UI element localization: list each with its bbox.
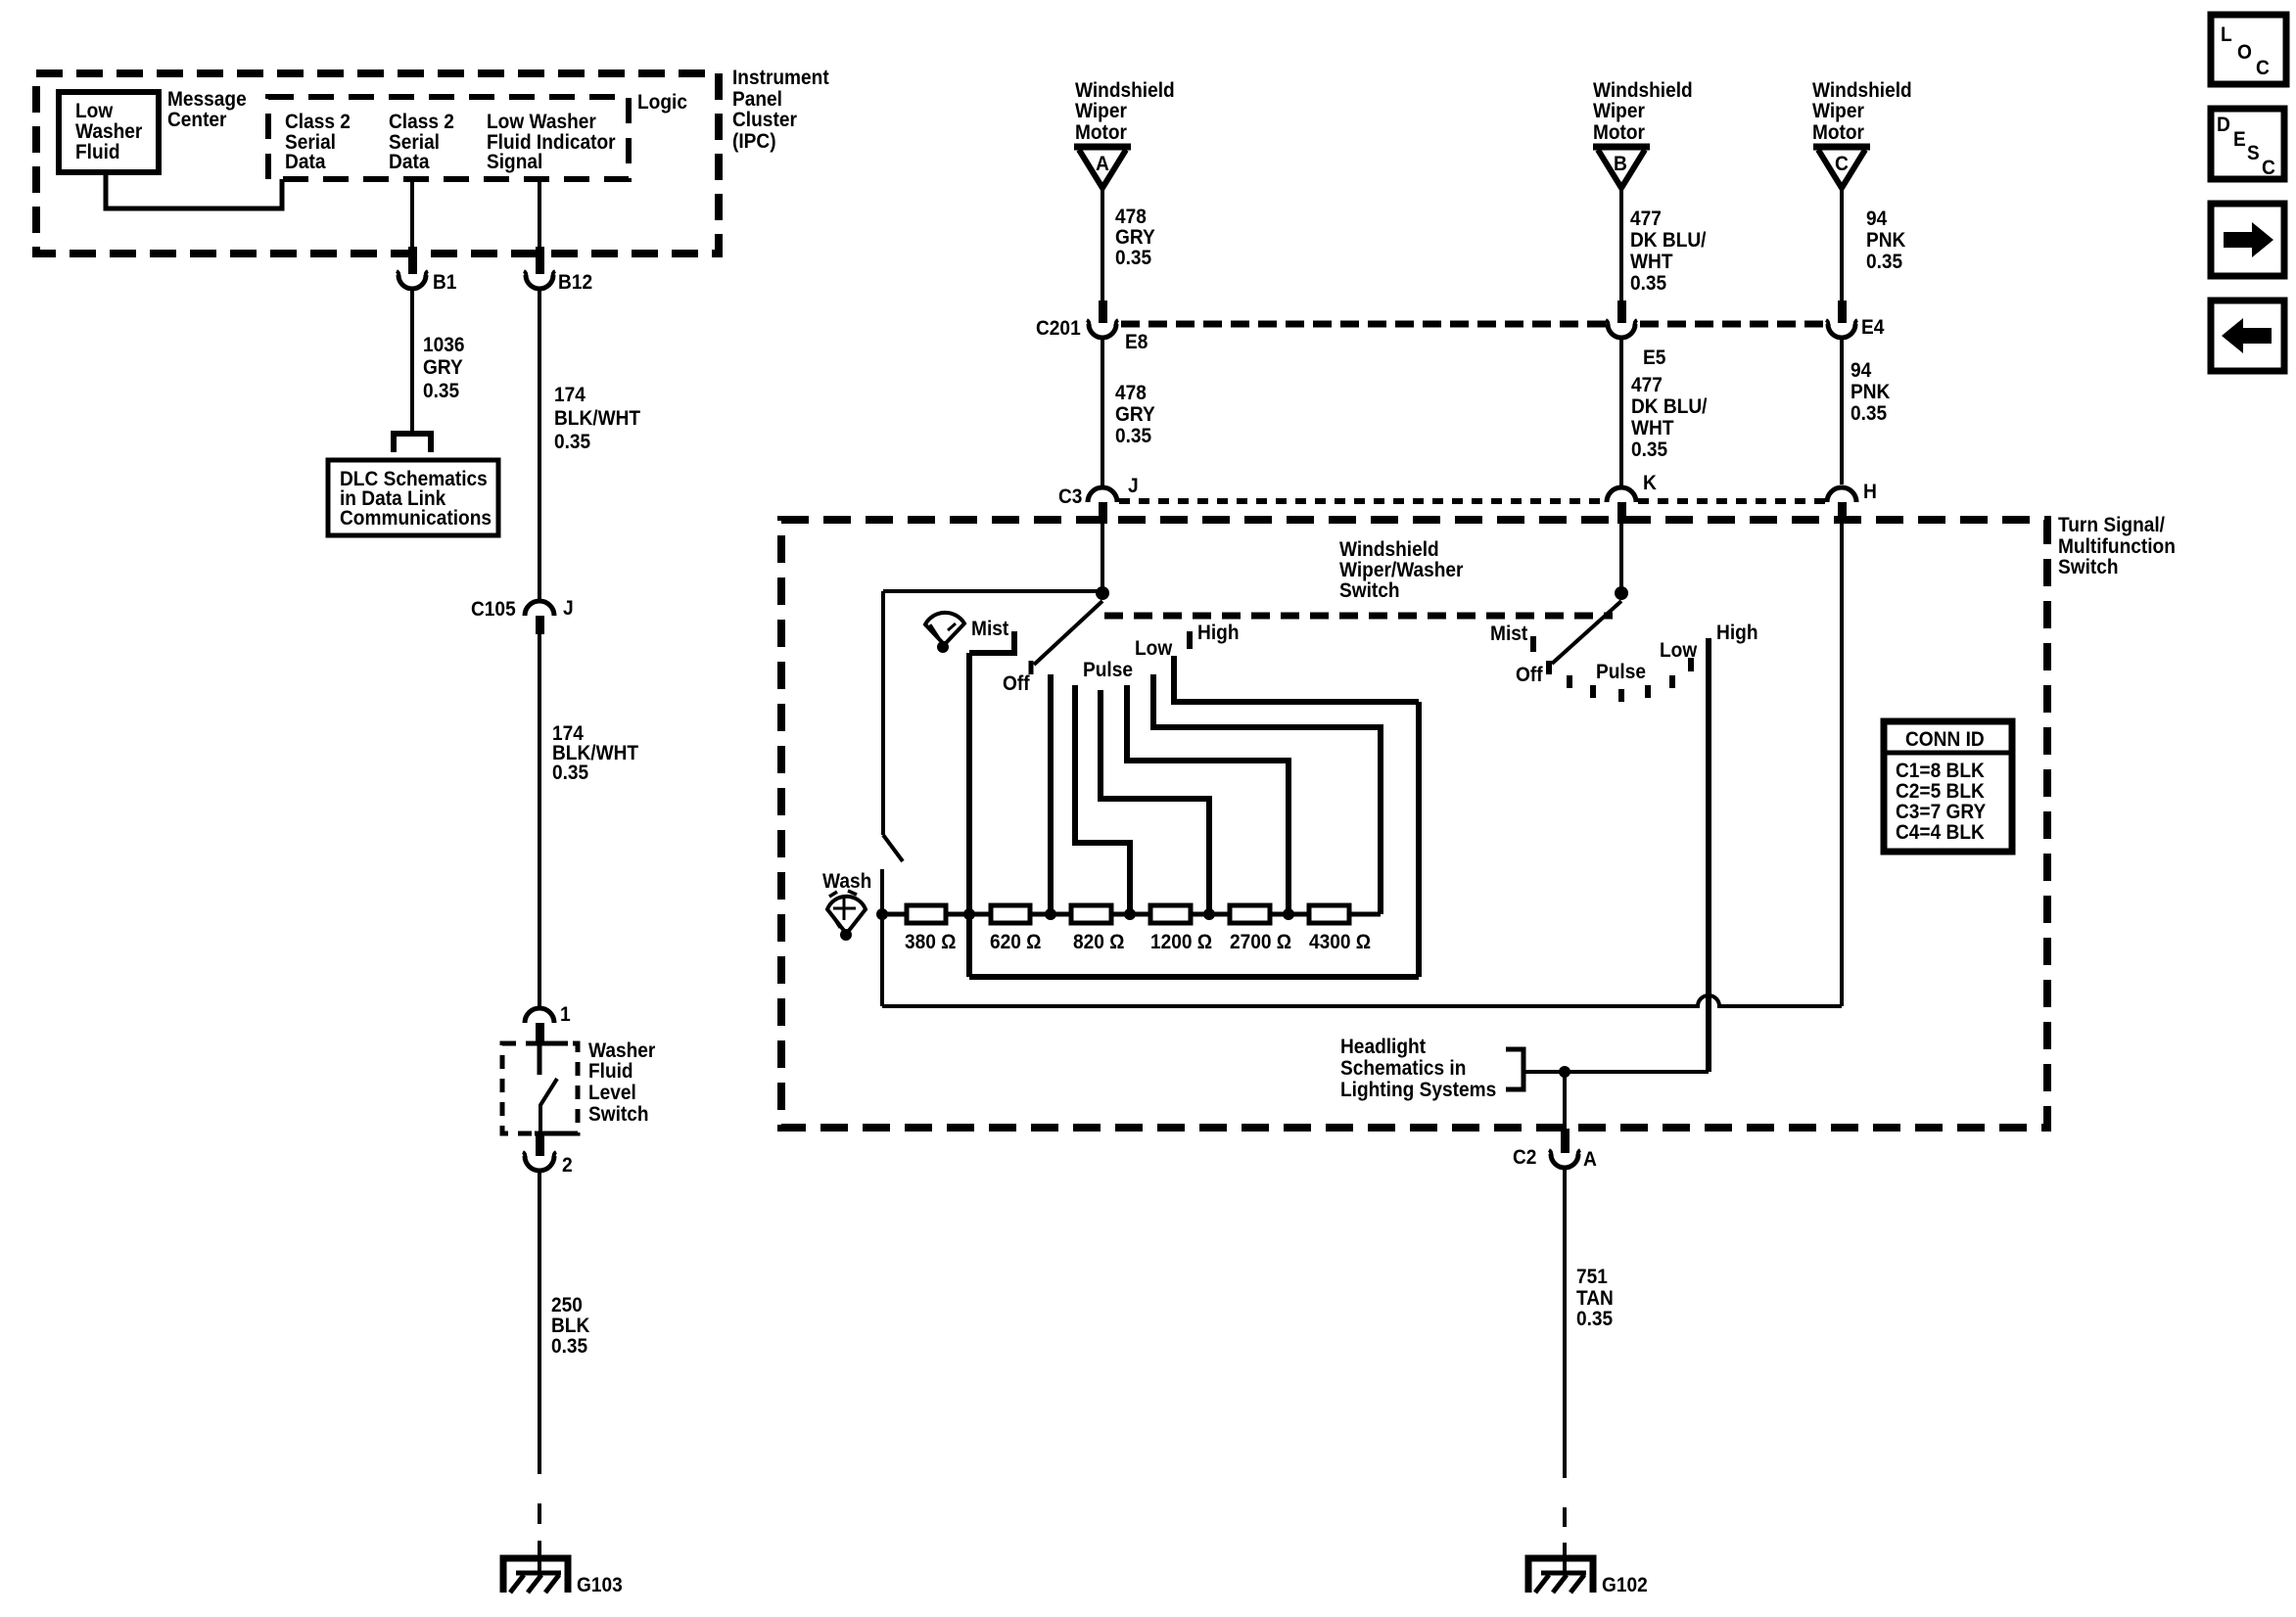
svg-text:Panel: Panel [732,88,782,111]
svg-text:0.35: 0.35 [551,1335,587,1358]
Turn Signal/Multifunction Switch label [2058,514,2176,578]
svg-text:J: J [563,597,574,620]
connector C3 cavity H [1827,487,1856,524]
svg-text:Motor: Motor [1812,121,1864,144]
resistor chain bus segments [882,912,1381,917]
resistor 380 ohm [907,905,946,923]
svg-text:C: C [2262,157,2275,179]
svg-text:0.35: 0.35 [552,762,588,784]
right switch Off tick [1546,661,1552,674]
svg-text:478: 478 [1115,382,1147,404]
wire label 477 DK BLU/WHT 0.35 upper [1630,208,1707,295]
svg-text:2700 Ω: 2700 Ω [1230,931,1291,953]
nav icon forward arrow button [2211,204,2284,276]
svg-text:C105: C105 [471,598,516,621]
svg-text:1036: 1036 [423,334,465,356]
svg-text:Off: Off [1516,664,1544,686]
svg-text:Logic: Logic [637,91,687,114]
wire 250 BLK [538,1171,541,1474]
svg-text:Pulse: Pulse [1596,661,1646,683]
Washer Fluid Level Switch label [588,1039,655,1126]
connector 1 washer fluid level switch [525,1008,554,1043]
svg-text:Wash: Wash [822,870,871,893]
svg-text:B12: B12 [558,271,592,294]
svg-text:Low: Low [75,100,114,122]
svg-text:O: O [2237,41,2252,64]
svg-text:C3=7 GRY: C3=7 GRY [1896,801,1986,823]
svg-text:K: K [1643,472,1657,494]
svg-text:C2=5 BLK: C2=5 BLK [1896,780,1985,803]
left switch blade [1034,601,1102,665]
windshield wiper motor B triangle [1593,147,1650,188]
DLC Schematics box [328,460,498,535]
junction node off/chain [1045,908,1056,920]
Windshield Wiper Motor A label [1075,79,1175,144]
svg-text:C2: C2 [1513,1146,1536,1169]
wire A into switch [1101,524,1104,595]
right switch Mist tick [1530,636,1536,652]
connector C201 cavity E5 [1606,300,1637,338]
junction node pulse3/chain [1283,908,1294,920]
Low Washer Fluid box [59,92,159,172]
wire 94 PNK mid segment [1840,338,1844,485]
pulse delay wire 3 [1127,685,1289,914]
svg-text:E: E [2233,128,2246,151]
connector B12 [524,247,555,289]
svg-text:174: 174 [554,384,586,406]
right switch High contact wire down [1706,638,1711,1072]
svg-text:0.35: 0.35 [1115,247,1151,269]
svg-text:Data: Data [285,151,326,173]
svg-text:Fluid: Fluid [588,1060,633,1083]
svg-text:DK BLU/: DK BLU/ [1630,229,1707,252]
svg-text:TAN: TAN [1576,1287,1614,1310]
svg-text:751: 751 [1576,1266,1608,1288]
wire dash to ground G103 [538,1503,541,1524]
right switch Low tick [1688,658,1694,671]
svg-text:GRY: GRY [1115,226,1155,249]
ground G103 [503,1558,568,1593]
svg-text:(IPC): (IPC) [732,130,776,153]
svg-text:Multifunction: Multifunction [2058,535,2176,558]
wash branch lower vertical [880,869,884,1006]
svg-text:477: 477 [1631,374,1663,396]
svg-text:380 Ω: 380 Ω [905,931,957,953]
svg-text:1: 1 [560,1003,571,1026]
connector C3 cavity J [1088,487,1117,524]
svg-text:Communications: Communications [340,507,492,530]
junction node at C2 drop [1559,1066,1570,1078]
svg-text:H: H [1863,481,1877,503]
svg-text:B1: B1 [433,271,457,294]
svg-text:C: C [1835,153,1849,175]
svg-text:E5: E5 [1643,346,1666,369]
wire 478 GRY mid segment [1101,338,1104,486]
svg-text:D: D [2217,114,2230,136]
resistor 1200 ohm [1150,905,1191,923]
svg-text:Windshield: Windshield [1075,79,1175,102]
svg-text:Signal: Signal [487,151,542,173]
svg-text:Turn Signal/: Turn Signal/ [2058,514,2165,536]
Class 2 Serial Data label 2 [389,111,454,173]
high wire horizontal to C2 junction [1525,1070,1709,1074]
svg-text:Schematics in: Schematics in [1340,1057,1466,1080]
wire label 94 PNK 0.35 upper [1866,208,1905,273]
svg-text:820 Ω: 820 Ω [1073,931,1125,953]
junction node mist rail/chain [963,908,975,920]
svg-text:High: High [1716,622,1758,644]
svg-text:A: A [1583,1148,1597,1171]
svg-text:Fluid: Fluid [75,141,120,163]
svg-text:Mist: Mist [1490,623,1527,645]
svg-text:94: 94 [1851,359,1871,382]
svg-text:Wiper/Washer: Wiper/Washer [1339,559,1464,581]
svg-text:Windshield: Windshield [1339,538,1439,561]
svg-text:C4=4 BLK: C4=4 BLK [1896,821,1985,844]
wash branch upper vertical [881,591,885,835]
svg-text:Center: Center [167,109,227,131]
rail right vertical to Low/High feed [1416,702,1422,977]
svg-text:Class 2: Class 2 [389,111,454,133]
nav icon back arrow button [2211,300,2284,371]
connector B1 [397,247,428,289]
wire dash to ground G102 [1563,1507,1567,1527]
svg-text:G103: G103 [577,1574,623,1596]
svg-text:1200 Ω: 1200 Ω [1150,931,1212,953]
wire B into switch [1619,524,1623,595]
right switch pulse arc ticks [1570,675,1672,702]
wire 478 GRY from motor A [1101,188,1104,301]
mist rail left vertical [966,653,972,977]
washer fluid switch top contact [537,1043,568,1075]
svg-text:Motor: Motor [1593,121,1645,144]
svg-text:Wiper: Wiper [1593,100,1645,122]
Logic inner dashed box [268,97,629,179]
svg-text:94: 94 [1866,208,1887,230]
wire label 478 GRY 0.35 lower [1115,382,1155,447]
wire into ground G102 [1563,1543,1567,1571]
washer fluid switch blade [540,1079,557,1133]
wire 477 DK BLU/WHT mid segment [1619,338,1623,486]
svg-text:Message: Message [167,88,247,111]
wire down from junction to C2 [1563,1072,1567,1130]
svg-text:0.35: 0.35 [1115,425,1151,447]
IPC label [732,67,829,153]
junction node on wire B [1615,586,1628,600]
pulse delay wire 1 [1075,685,1130,914]
svg-text:Switch: Switch [1339,579,1400,602]
wiper/washer switch inner dashed line [1104,613,1613,620]
resistor 820 ohm [1071,905,1111,923]
washer fluid level switch dashed box [502,1043,578,1133]
washer fluid switch bottom contact [535,1132,565,1136]
Class 2 Serial Data label 1 [285,111,351,173]
windshield wiper motor C triangle [1813,147,1870,188]
svg-text:Wiper: Wiper [1075,100,1127,122]
wire 94 PNK riser from wash line to connector H [1840,524,1844,1006]
svg-text:GRY: GRY [423,356,463,379]
wire label 1036 GRY 0.35 [423,334,465,402]
resistor 2700 ohm [1230,905,1270,923]
wire label 478 GRY 0.35 upper [1115,206,1155,269]
svg-text:4300 Ω: 4300 Ω [1309,931,1371,953]
connector 2 washer fluid level switch [523,1134,556,1171]
svg-text:0.35: 0.35 [1631,439,1667,461]
connector C2 cavity A [1549,1129,1580,1168]
svg-text:WHT: WHT [1630,251,1673,273]
wire label 94 PNK 0.35 lower [1851,359,1890,425]
svg-text:A: A [1096,153,1109,175]
wash output line along bottom with crossover hump [882,995,1842,1006]
svg-text:Wiper: Wiper [1812,100,1864,122]
wire label 174 BLK/WHT 0.35 lower [552,722,638,784]
svg-text:J: J [1128,475,1139,497]
wire Class 2 Serial Data down to B1 [410,179,414,248]
Message Center label [167,88,247,131]
svg-text:Off: Off [1003,672,1031,695]
Headlight Schematics in Lighting Systems label [1340,1036,1496,1101]
resistor 620 ohm [991,905,1030,923]
resistor value labels [905,931,1371,953]
off-page fork symbol above DLC box [394,434,431,452]
svg-text:S: S [2247,142,2260,164]
junction node pulse1/chain [1124,908,1136,920]
wire label 751 TAN 0.35 [1576,1266,1614,1330]
wire 174 BLK/WHT lower segment [538,634,541,1006]
wash position icon (wiper symbol with spray) [827,891,866,941]
svg-text:Switch: Switch [2058,556,2119,578]
svg-text:E4: E4 [1861,316,1885,339]
resistor 4300 ohm [1309,905,1349,923]
svg-text:2: 2 [562,1154,573,1177]
svg-text:Headlight: Headlight [1340,1036,1426,1058]
svg-text:Class 2: Class 2 [285,111,351,133]
svg-text:0.35: 0.35 [1866,251,1902,273]
svg-text:Pulse: Pulse [1083,659,1133,681]
CONN ID table box [1884,721,2012,852]
pulse delay wire 4 to chain end [1153,674,1381,914]
svg-text:DK BLU/: DK BLU/ [1631,395,1708,418]
windshield wiper motor A triangle [1074,147,1131,188]
svg-text:L: L [2221,23,2232,46]
svg-text:Cluster: Cluster [732,109,797,131]
Off contact wire [1048,674,1054,914]
svg-text:WHT: WHT [1631,417,1674,439]
svg-text:Instrument: Instrument [732,67,829,89]
svg-text:Low Washer: Low Washer [487,111,596,133]
svg-text:478: 478 [1115,206,1147,228]
Windshield Wiper Motor B label [1593,79,1693,144]
junction node wash/chain [876,908,888,920]
C201 connector row dashed line E8 to E5 [1121,321,1606,328]
svg-text:C3: C3 [1058,485,1082,508]
svg-text:Washer: Washer [588,1039,655,1062]
svg-text:C201: C201 [1036,317,1081,340]
svg-text:Motor: Motor [1075,121,1127,144]
nav icon LOC button [2211,15,2286,84]
connector C105 [525,601,554,634]
svg-text:0.35: 0.35 [1630,272,1666,295]
left switch Off position tick [1029,661,1034,674]
nav icon DESC button [2211,109,2284,179]
svg-text:BLK/WHT: BLK/WHT [554,407,640,430]
wire 94 PNK from motor C [1840,188,1844,301]
wire 477 DK BLU/WHT from motor B [1619,188,1623,301]
left switch High position tick [1187,631,1193,649]
Low contact wire top [1174,656,1419,702]
svg-text:0.35: 0.35 [554,431,590,453]
wire 174 BLK/WHT upper segment [538,289,541,600]
wire label 250 BLK 0.35 [551,1294,589,1358]
ground G102 [1528,1558,1593,1593]
svg-text:PNK: PNK [1866,229,1905,252]
svg-text:0.35: 0.35 [1851,402,1887,425]
Instrument Panel Cluster dashed box [36,73,719,254]
svg-text:Mist: Mist [971,618,1008,640]
connector C201 cavity E8 [1087,300,1118,338]
Windshield Wiper/Washer Switch label [1339,538,1464,602]
svg-text:250: 250 [551,1294,583,1317]
svg-text:477: 477 [1630,208,1662,230]
wire label 477 DK BLU/WHT 0.35 lower [1631,374,1708,461]
svg-text:B: B [1614,153,1627,175]
svg-text:E8: E8 [1125,331,1148,353]
C3 connector row dotted line K to H [1638,498,1825,504]
svg-text:C: C [2256,57,2270,79]
svg-text:0.35: 0.35 [423,380,459,402]
svg-text:Low: Low [1135,637,1173,660]
svg-text:CONN ID: CONN ID [1905,728,1985,751]
connector C201 cavity E4 [1826,300,1857,338]
connector C3 cavity K [1607,487,1636,524]
wire 751 TAN [1563,1168,1567,1478]
wire Low Washer Fluid box to Class 2 Serial Data [106,172,282,208]
svg-text:Switch: Switch [588,1103,649,1126]
rail bottom horizontal [969,974,1419,980]
svg-text:Data: Data [389,151,430,173]
wire into ground G103 [538,1541,541,1571]
Low Washer Fluid Indicator Signal label [487,111,616,173]
wire Low Washer Fluid Indicator Signal down to B12 [538,179,541,248]
mist position icon (wiper symbol) [925,613,964,653]
svg-text:PNK: PNK [1851,381,1890,403]
svg-text:Windshield: Windshield [1593,79,1693,102]
svg-text:G102: G102 [1602,1574,1648,1596]
svg-text:Level: Level [588,1082,636,1104]
Turn Signal / Multifunction Switch outer dashed box [781,520,2047,1128]
svg-text:BLK: BLK [551,1315,589,1337]
wire 1036 GRY below B1 [410,289,414,431]
wire switch common horizontal to wash branch [883,589,1102,593]
Windshield Wiper Motor C label [1812,79,1912,144]
C3 connector row dotted line J to K [1119,498,1606,504]
pulse delay wire 2 [1101,690,1209,914]
wire label 174 BLK/WHT 0.35 upper [554,384,640,453]
svg-text:High: High [1197,622,1240,644]
svg-text:Lighting Systems: Lighting Systems [1340,1079,1496,1101]
svg-text:C1=8 BLK: C1=8 BLK [1896,760,1985,782]
right switch blade [1552,601,1621,664]
junction node on wire A [1096,586,1109,600]
headlight schematics bracket [1506,1049,1523,1089]
C201 connector row dashed line E5 to E4 [1640,321,1825,328]
svg-text:620 Ω: 620 Ω [990,931,1042,953]
svg-text:Windshield: Windshield [1812,79,1912,102]
svg-text:Washer: Washer [75,120,142,143]
junction node pulse2/chain [1203,908,1215,920]
Mist contact tick and wire to rail [969,631,1014,653]
svg-text:GRY: GRY [1115,403,1155,426]
wash switch blade [883,835,903,861]
svg-text:0.35: 0.35 [1576,1308,1613,1330]
